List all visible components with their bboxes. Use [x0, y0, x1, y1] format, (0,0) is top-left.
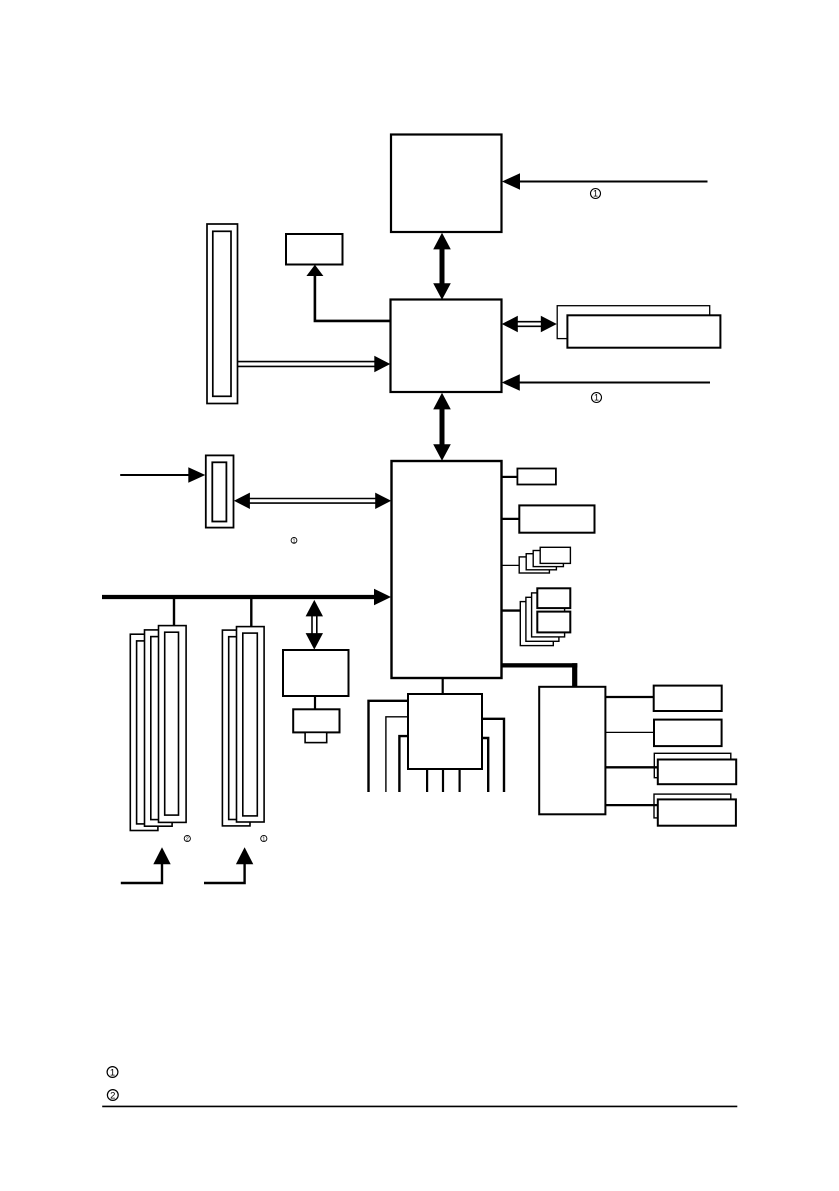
- wire clock-to-CPU arrow: [502, 173, 708, 190]
- wire arrow into PCI connector: [120, 467, 205, 482]
- wire L-arrow right: [204, 847, 253, 883]
- pin SuperIO bottom 1: [426, 769, 428, 792]
- stack parallel front: [658, 799, 736, 825]
- stack serial back: [654, 753, 731, 777]
- pin SuperIO bottom 2: [442, 769, 444, 792]
- wire NB-to-BIOS: [306, 265, 390, 321]
- slot DIMM group2 front: [159, 626, 187, 823]
- box keyboard: [654, 686, 722, 711]
- slot DIMM group1 back: [222, 630, 250, 826]
- box memory front: [567, 315, 720, 347]
- wire SB to port stack A: [502, 564, 520, 566]
- pin SuperIO left 2: [386, 717, 408, 792]
- stack parallel back: [654, 794, 731, 818]
- wire clock-to-NB arrow: [502, 374, 710, 391]
- box BIOS: [286, 234, 343, 265]
- wire system bus thick arrow: [102, 589, 391, 606]
- wire bus drop to DIMM group 1: [250, 599, 252, 627]
- wire KBC to box2: [605, 731, 654, 733]
- svg-text:2: 2: [186, 837, 189, 843]
- wire bus-ROM thick double arrow: [306, 600, 323, 650]
- slot AGP connector: [207, 224, 238, 404]
- box north-bridge: [391, 300, 502, 393]
- box buzzer: [293, 709, 339, 732]
- wire KBC to serial: [605, 766, 657, 768]
- wire PCI-SB double line arrow: [234, 493, 391, 509]
- wire NB-memory double arrow: [502, 316, 557, 332]
- svg-text:2: 2: [110, 1090, 115, 1101]
- wire NB-SB thick double arrow: [433, 393, 451, 461]
- wire KBC to parallel: [605, 804, 657, 806]
- wire SB to port stack B: [502, 609, 521, 611]
- wire AGP-to-NB double line arrow: [238, 356, 390, 372]
- slot DIMM group2 back: [130, 634, 158, 830]
- chip SuperIO: [408, 694, 482, 769]
- stack port B: [520, 588, 570, 645]
- box south-bridge: [392, 461, 502, 678]
- wire ROM to buzzer: [314, 696, 316, 709]
- pin SuperIO bottom 3: [459, 769, 461, 792]
- stack serial front: [658, 760, 736, 785]
- svg-text:1: 1: [293, 538, 296, 544]
- pin SuperIO left 1: [369, 701, 409, 792]
- wire SB to IDE box: [502, 518, 520, 520]
- pin SuperIO left 3: [399, 736, 408, 792]
- box buzzer tab: [305, 732, 327, 742]
- label circled-1 top: [591, 189, 601, 199]
- box CPU: [391, 135, 502, 233]
- svg-text:1: 1: [110, 1067, 115, 1078]
- slot DIMM group1 front: [237, 627, 265, 822]
- wire CPU-NB thick double arrow: [433, 233, 451, 300]
- wire L-arrow left: [121, 847, 171, 883]
- box ROM: [283, 650, 349, 696]
- svg-text:1: 1: [593, 189, 598, 199]
- label circled-1 footnote: [107, 1067, 118, 1079]
- stack port A: [519, 547, 570, 573]
- svg-text:1: 1: [594, 393, 599, 403]
- box KBC: [539, 687, 605, 815]
- wire SB to KBC thick elbow: [502, 663, 578, 688]
- wire bus drop to DIMM group 2: [173, 599, 175, 626]
- svg-text:1: 1: [262, 837, 265, 843]
- label circled-1 small PCI: [291, 538, 297, 545]
- label circled-1 DIMM: [261, 835, 267, 842]
- slot DIMM group2 middle: [145, 630, 173, 826]
- wire KBC to box1: [605, 696, 653, 698]
- slot PCI connector: [206, 455, 234, 527]
- label circled-1 mid: [592, 393, 602, 403]
- box mouse: [654, 720, 722, 747]
- wire SB to SuperIO: [442, 678, 444, 695]
- box IDE: [519, 505, 594, 532]
- label circled-2 DIMM: [184, 835, 190, 842]
- box memory back: [557, 306, 710, 339]
- footer rule: [102, 1105, 737, 1107]
- wire SB to USB box: [502, 476, 518, 478]
- pin SuperIO right 1: [482, 719, 504, 792]
- box USB: [517, 469, 556, 485]
- label circled-2 footnote: [107, 1090, 118, 1102]
- pin SuperIO right 2: [482, 738, 488, 792]
